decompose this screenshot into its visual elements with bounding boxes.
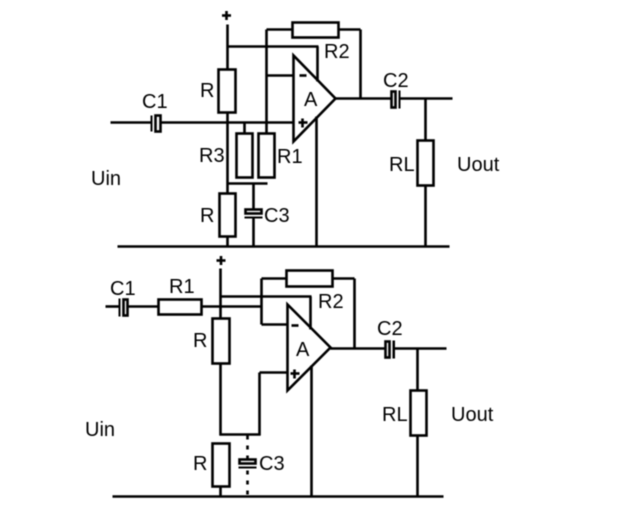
svg-text:RL: RL: [382, 404, 408, 426]
wire: input terminal to C1: [111, 121, 152, 124]
wire: C1 to R1: [129, 305, 159, 308]
resistor R (lower bias, bottom circuit): [213, 444, 230, 487]
wire: R1 to inverting node riser: [202, 305, 262, 308]
svg-text:A: A: [304, 89, 318, 111]
wire: R bottom lead down to bias node: [219, 364, 222, 436]
ground rail (top circuit): [118, 245, 450, 248]
resistor R1: [259, 134, 275, 178]
wire: R2 right lead: [339, 28, 361, 31]
wire: op-amp inverting input: [262, 323, 289, 326]
svg-text:C3: C3: [259, 453, 285, 475]
wire: C3 top lead: [252, 184, 255, 210]
resistor R3: [237, 134, 253, 178]
svg-text:R: R: [200, 205, 214, 227]
ground rail (bottom circuit): [113, 495, 444, 498]
resistor R2 (bottom circuit feedback): [287, 271, 333, 287]
wire: R bottom lead to input node: [226, 113, 229, 124]
svg-text:C3: C3: [264, 205, 290, 227]
wire: C2 to output terminal: [401, 97, 453, 100]
capacitor C2 (bottom circuit): [386, 341, 396, 359]
wire: C3 dashed top lead: [246, 436, 249, 459]
capacitor C1 (bottom circuit): [119, 299, 128, 317]
wire: lower R lead to ground rail: [219, 487, 222, 498]
wire: C2 to output terminal: [395, 347, 447, 350]
op-amp U2 triangle: [288, 305, 331, 391]
svg-text:R1: R1: [169, 276, 195, 298]
svg-text:Uin: Uin: [91, 168, 121, 190]
svg-text:R2: R2: [324, 41, 350, 63]
op-amp U2 plus label: [291, 370, 300, 379]
resistor RL (bottom circuit load): [411, 391, 427, 436]
wire: noninverting input riser down: [258, 373, 261, 436]
svg-text:C2: C2: [383, 70, 409, 92]
capacitor C3 (bottom circuit, dashed): [239, 460, 257, 469]
capacitor C3 (top circuit): [245, 210, 263, 219]
resistor R (lower bias, top circuit): [220, 194, 236, 237]
power symbol + (top circuit V+): [222, 11, 231, 20]
wire: op-amp inverting input: [267, 74, 294, 77]
wire: R3 top lead: [243, 123, 246, 135]
wire: op-amp output to C2: [331, 347, 385, 350]
resistor RL (top circuit load): [418, 141, 434, 186]
wire: op-amp noninverting input: [260, 371, 289, 374]
power symbol + (bottom circuit V+): [217, 256, 226, 265]
wire: feedback node to R2 left: [267, 28, 293, 31]
wire: input terminal to C1: [106, 305, 120, 308]
wire: lower R lead to ground rail: [226, 237, 229, 248]
svg-text:R1: R1: [277, 146, 303, 168]
wire: R2 drop to output node: [353, 279, 356, 349]
wire: RL bottom lead to ground rail: [416, 436, 419, 498]
wire: op-amp output to C2: [336, 97, 391, 100]
wire: V+ lead down to resistor R top: [226, 25, 229, 71]
svg-text:R: R: [193, 453, 207, 475]
svg-text:R: R: [193, 330, 207, 352]
svg-text:Uout: Uout: [451, 404, 494, 426]
svg-text:A: A: [296, 339, 310, 361]
svg-text:R2: R2: [318, 291, 344, 313]
op-amp U1 triangle: [294, 56, 336, 142]
wire: R2 drop to output node: [359, 30, 362, 100]
svg-text:C2: C2: [377, 318, 403, 340]
op-amp U1 minus label: [300, 74, 307, 77]
wire: riser to R2 left: [262, 277, 287, 280]
wire: RL bottom lead to ground rail: [424, 186, 427, 248]
op-amp U2 minus label: [292, 324, 299, 327]
wire: node line down from input wire to lower R: [226, 123, 229, 195]
wire: V+ lead down to R top: [219, 269, 222, 320]
wire: C3 dashed bottom lead: [246, 471, 249, 497]
wire: op-amp U2 V- pin drop to ground: [310, 366, 313, 498]
capacitor C2 (top circuit): [392, 91, 401, 109]
wire: RL top lead: [416, 349, 419, 392]
wire: op-amp U1 V- pin drop to ground: [315, 117, 318, 248]
svg-text:C1: C1: [142, 91, 168, 113]
resistor R1 (bottom circuit, series input): [159, 300, 202, 315]
op-amp U1 plus label: [299, 119, 308, 128]
resistor R2 (top circuit feedback): [293, 23, 339, 38]
svg-text:Uin: Uin: [85, 419, 115, 441]
wire: V+ supply rail to op-amp: [221, 295, 312, 298]
svg-text:R: R: [200, 80, 214, 102]
wire: V+ supply rail to op-amp: [228, 45, 319, 48]
resistor R (upper bias, bottom circuit): [213, 319, 230, 364]
wire: C3 bottom lead to ground rail: [252, 219, 255, 248]
wire: R2 right lead: [333, 277, 355, 280]
capacitor C1 (top circuit): [151, 116, 161, 132]
wire: bottom node joining R3 R1 C3: [227, 182, 268, 185]
resistor R (upper bias, top circuit): [219, 70, 236, 113]
wire: C1 to op-amp + input: [161, 121, 294, 124]
svg-text:C1: C1: [110, 278, 136, 300]
wire: bias node joining R and + input riser: [220, 433, 261, 436]
wire: op-amp U1 V+ pin drop: [316, 47, 319, 82]
wire: R1 node line from feedback node down to R1: [265, 30, 268, 135]
svg-text:Uout: Uout: [457, 154, 500, 176]
svg-text:RL: RL: [389, 154, 415, 176]
wire: RL top lead: [424, 99, 427, 142]
wire: op-amp U2 V+ pin drop: [309, 297, 312, 330]
svg-text:R3: R3: [199, 145, 225, 167]
wire: inverting node riser: [260, 279, 263, 325]
